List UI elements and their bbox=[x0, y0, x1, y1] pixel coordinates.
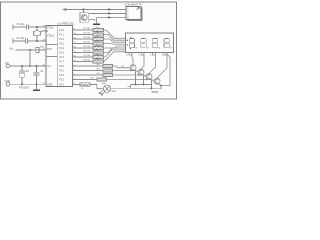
base resistor R12 row bbox=[73, 78, 154, 81]
capacitor C1 bbox=[13, 25, 46, 30]
svg-text:19: 19 bbox=[43, 25, 45, 27]
wire emitter rail B bbox=[111, 86, 161, 89]
resistor R2 row bbox=[73, 33, 126, 40]
resistor R3 row bbox=[73, 37, 126, 42]
svg-text:RED: RED bbox=[112, 91, 117, 93]
wire GND rail bbox=[10, 83, 46, 85]
ground symbol (power) bbox=[33, 89, 40, 91]
segment resistor name labels bbox=[96, 27, 100, 61]
svg-text:P3.1: P3.1 bbox=[59, 71, 64, 73]
svg-text:6: 6 bbox=[162, 55, 163, 57]
svg-text:CON-MAST: CON-MAST bbox=[125, 2, 139, 6]
display DS1 digit 3 bbox=[152, 38, 160, 48]
svg-text:R7 220: R7 220 bbox=[84, 55, 92, 57]
ground symbol (top) bbox=[93, 23, 100, 25]
transistor Q1 bbox=[130, 65, 136, 72]
resistor R5 row bbox=[73, 46, 126, 50]
display DS1 digit 2 bbox=[141, 38, 149, 48]
transistor Q5 bbox=[80, 13, 89, 23]
wire digit2 common bbox=[141, 53, 144, 70]
wire Q5 collector to J2 pin2 bbox=[89, 13, 126, 15]
transistor Q2 bbox=[138, 69, 144, 76]
resistor R13 zigzag bbox=[81, 83, 89, 85]
schematic frame border bbox=[1, 2, 177, 99]
svg-text:20: 20 bbox=[43, 64, 45, 66]
node XTAL2 junction bbox=[36, 40, 38, 42]
resistor R7 row bbox=[73, 50, 126, 59]
node C4 top bbox=[21, 65, 23, 67]
base resistor R10 row bbox=[73, 69, 138, 72]
svg-text:R8 220: R8 220 bbox=[84, 60, 92, 62]
terminal J1 GND bbox=[6, 83, 10, 87]
svg-text:R1 220: R1 220 bbox=[84, 28, 92, 30]
capacitor C3 (reset) bbox=[36, 48, 39, 53]
crystal X1 bbox=[33, 27, 40, 41]
resistor R1 row bbox=[73, 28, 126, 38]
wire ground leg to J2 pin3 bbox=[97, 18, 127, 24]
terminal J1 +5V bbox=[6, 64, 10, 68]
IC U1 left column dividers bbox=[46, 45, 57, 57]
IC U1 body bbox=[46, 26, 73, 87]
svg-text:P1.3: P1.3 bbox=[59, 44, 64, 46]
svg-text:9: 9 bbox=[43, 48, 44, 50]
svg-text:R5 220: R5 220 bbox=[84, 46, 92, 48]
connector J2 bbox=[125, 2, 143, 20]
junction dot at Q5 emitter tap bbox=[82, 8, 84, 10]
svg-text:P3.2: P3.2 bbox=[59, 75, 64, 77]
display DS1 digit 1 bbox=[129, 38, 137, 48]
wire emitter drop Q4 bbox=[160, 84, 162, 87]
IC U1 pin names right bbox=[59, 30, 64, 86]
power flag +5V (top rail) bbox=[63, 8, 66, 10]
wire emitter drop Q1 bbox=[135, 71, 137, 84]
svg-text:P1.1: P1.1 bbox=[59, 35, 64, 37]
node XTAL1 junction bbox=[36, 26, 38, 28]
pin number labels bbox=[73, 28, 75, 84]
svg-text:P1.6: P1.6 bbox=[59, 57, 64, 59]
display DS1 digit 1 pin specks bbox=[127, 37, 135, 49]
capacitor C2 bbox=[13, 39, 46, 44]
svg-text:470u/25v: 470u/25v bbox=[19, 87, 30, 90]
svg-text:P1.5: P1.5 bbox=[59, 53, 64, 55]
svg-text:12MHz: 12MHz bbox=[41, 30, 50, 33]
svg-text:P1.4: P1.4 bbox=[59, 48, 64, 50]
bus arrow pin2 bbox=[108, 12, 111, 14]
wire digit4 common bbox=[157, 53, 167, 79]
wire emitter rail A bbox=[131, 84, 152, 86]
svg-text:9: 9 bbox=[138, 55, 139, 57]
LED D1 bbox=[103, 85, 110, 92]
base resistor R11 row bbox=[73, 73, 146, 76]
node at +5V rail bbox=[29, 65, 31, 67]
wire Q5 base L-jog bbox=[89, 20, 95, 22]
svg-text:XTAL1: XTAL1 bbox=[47, 26, 55, 29]
segment resistor value labels bbox=[84, 28, 92, 62]
node C5 top bbox=[36, 65, 38, 67]
node rail dots bbox=[135, 84, 162, 90]
display DS1 digit 4 bbox=[164, 38, 172, 48]
svg-text:XTAL2: XTAL2 bbox=[47, 35, 55, 38]
svg-text:S8550: S8550 bbox=[152, 92, 159, 94]
resistor R13 (LED series) bbox=[73, 83, 97, 86]
svg-text:P1.7: P1.7 bbox=[59, 62, 64, 64]
display DS1 box bbox=[126, 33, 174, 53]
wire emitter rail riser bbox=[161, 54, 170, 86]
wire Q5 emitter to rail bbox=[83, 10, 85, 13]
svg-text:R6 220: R6 220 bbox=[84, 51, 92, 53]
bus arrow pin1 bbox=[108, 8, 111, 10]
resistor R4 row bbox=[73, 42, 126, 45]
svg-text:P1.0: P1.0 bbox=[59, 30, 64, 32]
svg-text:10: 10 bbox=[43, 83, 45, 85]
IC U1 pin names left bbox=[47, 26, 55, 86]
svg-text:GND: GND bbox=[5, 80, 11, 83]
wire R13 to LED jog bbox=[97, 84, 104, 88]
left pin number labels bbox=[43, 25, 45, 84]
svg-text:C1 22p: C1 22p bbox=[17, 23, 26, 26]
transistor Q3 bbox=[146, 74, 152, 81]
svg-text:P3.0: P3.0 bbox=[59, 66, 64, 68]
wire emitter drop Q3 bbox=[151, 80, 153, 88]
display common pin number labels bbox=[126, 55, 163, 57]
base resistor labels bbox=[91, 64, 101, 80]
svg-text:R3 220: R3 220 bbox=[84, 37, 92, 39]
wire +5V rail bbox=[10, 65, 46, 67]
svg-text:P3.3: P3.3 bbox=[59, 80, 64, 82]
svg-text:R2 220: R2 220 bbox=[84, 33, 92, 35]
bus arrow pin3 bbox=[108, 16, 111, 18]
capacitor C4 electrolytic bbox=[20, 66, 25, 84]
node RST divider junction bbox=[29, 49, 31, 51]
wire RST to +5V rail bbox=[29, 50, 31, 66]
node C5 bottom bbox=[36, 83, 38, 85]
svg-text:P1.2: P1.2 bbox=[59, 39, 64, 41]
svg-text:P3.7: P3.7 bbox=[59, 84, 64, 86]
wire emitter drop Q2 bbox=[143, 76, 145, 85]
resistor R6 row bbox=[73, 48, 126, 54]
svg-text:C2 22p: C2 22p bbox=[17, 37, 26, 40]
wire RST bbox=[16, 49, 47, 51]
svg-text:18: 18 bbox=[43, 39, 45, 41]
wire digit3 common bbox=[149, 53, 156, 74]
wire C5 ground stub bbox=[36, 84, 38, 89]
wire digit1 common bbox=[129, 53, 133, 65]
svg-text:8: 8 bbox=[150, 55, 151, 57]
svg-text:12: 12 bbox=[126, 55, 128, 57]
wire rail A drop bbox=[130, 85, 132, 89]
svg-text:GND: GND bbox=[47, 83, 53, 86]
base resistor R9 row bbox=[73, 64, 130, 67]
svg-text:R4 220: R4 220 bbox=[84, 42, 92, 44]
transistor Q4 bbox=[154, 78, 160, 85]
resistor R8 row bbox=[73, 52, 126, 63]
svg-text:RST: RST bbox=[47, 48, 52, 51]
svg-text:4u7: 4u7 bbox=[25, 70, 30, 73]
node C4 bottom bbox=[21, 83, 23, 85]
segment resistor rows R1-R8 bbox=[73, 28, 126, 63]
LED D1 emission arrows bbox=[99, 90, 104, 95]
wire VCC rail to J2 pin1 bbox=[66, 9, 126, 11]
capacitor C5 bbox=[34, 66, 40, 84]
